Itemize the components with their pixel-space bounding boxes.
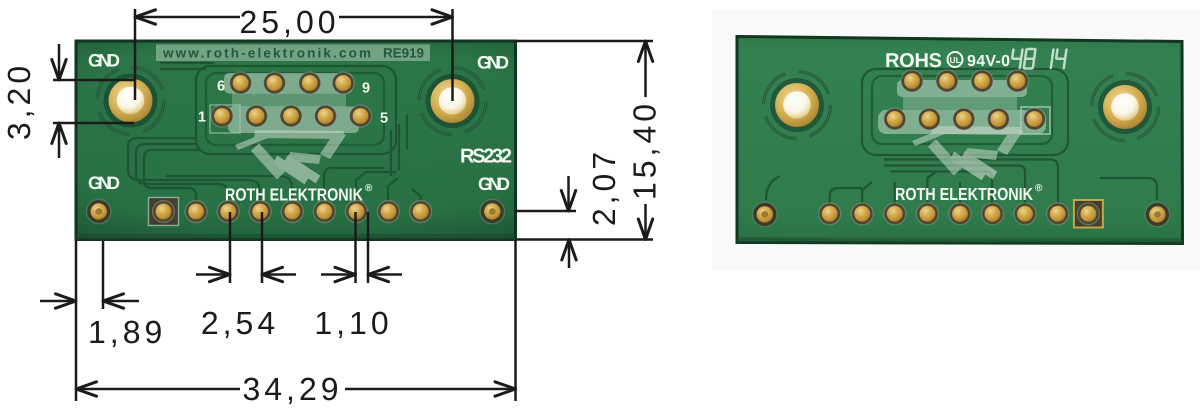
svg-text:GND: GND [88, 173, 120, 193]
svg-text:RS232: RS232 [460, 146, 512, 168]
svg-text:1: 1 [198, 110, 206, 126]
svg-text:1,89: 1,89 [88, 314, 166, 350]
svg-text:ROHS: ROHS [885, 50, 942, 72]
svg-text:9: 9 [362, 81, 370, 97]
svg-text:®: ® [1035, 183, 1043, 194]
svg-text:34,29: 34,29 [242, 371, 342, 407]
svg-text:GND: GND [477, 53, 509, 73]
svg-text:6: 6 [217, 79, 225, 95]
svg-text:2,07: 2,07 [586, 148, 622, 226]
svg-text:1,10: 1,10 [314, 305, 392, 341]
svg-text:GND: GND [88, 51, 120, 71]
svg-text:UL: UL [950, 55, 961, 65]
svg-text:94V-0: 94V-0 [967, 53, 1010, 70]
svg-text:3,20: 3,20 [1, 62, 37, 140]
svg-text:®: ® [365, 183, 373, 194]
svg-text:GND: GND [478, 174, 510, 194]
svg-text:15,40: 15,40 [627, 100, 663, 200]
svg-text:25,00: 25,00 [239, 4, 339, 40]
svg-text:RE919: RE919 [383, 46, 424, 61]
svg-text:ROTH ELEKTRONIK: ROTH ELEKTRONIK [895, 184, 1033, 204]
svg-text:www.roth-elektronik.com: www.roth-elektronik.com [162, 46, 371, 61]
svg-text:5: 5 [380, 111, 388, 127]
svg-text:2,54: 2,54 [201, 305, 279, 341]
